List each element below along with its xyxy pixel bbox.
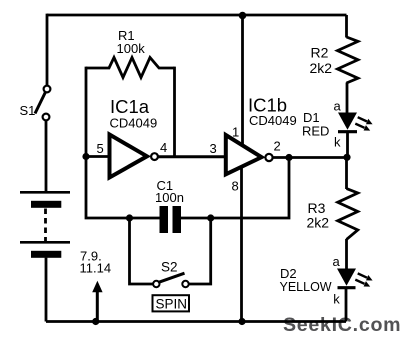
node top rail junction [239, 12, 247, 20]
battery [20, 192, 70, 257]
wire R3 to D2 [345, 239, 348, 269]
SPIN label box [153, 295, 190, 311]
wire D1 to node [346, 133, 349, 157]
svg-text:2k2: 2k2 [310, 60, 333, 76]
wire R1 left leg [85, 67, 88, 157]
wire bottom rail [46, 320, 346, 323]
inverter IC1b [226, 135, 273, 174]
node C1 right junction [207, 214, 214, 221]
svg-text:CD4049: CD4049 [110, 116, 158, 131]
svg-text:S2: S2 [161, 259, 178, 274]
svg-text:IC1a: IC1a [110, 96, 150, 117]
resistor R1 [86, 58, 175, 78]
resistor R3 [338, 189, 358, 240]
svg-text:D2: D2 [280, 266, 297, 281]
svg-text:5: 5 [97, 141, 104, 156]
node pin2 junction [285, 154, 292, 161]
wire S1 to battery [45, 120, 48, 191]
svg-text:100k: 100k [117, 41, 146, 56]
wire IC1b pin1 from top rail [241, 16, 244, 147]
wire S2 left branch [130, 218, 154, 284]
capacitor C1 [160, 206, 182, 233]
wire top rail [47, 14, 347, 17]
wire right column top [345, 15, 348, 38]
svg-text:CD4049: CD4049 [249, 113, 297, 128]
node pin5 junction [82, 153, 89, 160]
wire R1 right leg [173, 67, 176, 156]
svg-text:3: 3 [210, 141, 217, 156]
supply arrow [92, 281, 102, 322]
svg-text:11.14: 11.14 [80, 260, 112, 275]
wire node to R3 [345, 157, 348, 189]
svg-text:100n: 100n [155, 190, 184, 205]
wire feedback left side to C1 [86, 155, 160, 218]
wire S2 right branch [189, 218, 211, 284]
svg-text:R3: R3 [308, 200, 326, 216]
svg-text:R2: R2 [311, 45, 329, 61]
svg-text:4: 4 [160, 140, 167, 155]
svg-text:1: 1 [232, 125, 239, 140]
svg-text:SeekIC.com: SeekIC.com [283, 314, 401, 336]
svg-text:YELLOW: YELLOW [280, 280, 332, 294]
switch S1 [35, 86, 50, 121]
inverter IC1a [110, 135, 158, 178]
node bottom rail pin8 junction [238, 318, 245, 325]
switch S2 [153, 273, 189, 287]
wire IC1a output to IC1b input [158, 155, 227, 158]
svg-text:SPIN: SPIN [156, 297, 188, 312]
node C1 left junction [126, 214, 133, 221]
LED D1 [338, 113, 373, 132]
svg-text:a: a [333, 254, 341, 269]
node bottom arrow junction [92, 318, 99, 325]
svg-text:RED: RED [302, 124, 329, 139]
svg-text:k: k [333, 291, 340, 306]
LED D2 [337, 269, 373, 288]
svg-text:S1: S1 [20, 103, 36, 118]
wire battery to bottom rail [45, 258, 48, 322]
svg-text:2k2: 2k2 [307, 215, 330, 231]
wire feedback down from pin2 node [181, 158, 289, 219]
svg-text:2: 2 [274, 139, 281, 154]
svg-text:k: k [334, 135, 341, 150]
svg-text:8: 8 [232, 179, 239, 194]
wire pin5 input [85, 155, 110, 158]
node D1 cathode junction [343, 154, 350, 161]
svg-text:a: a [334, 99, 342, 114]
wire R2 to D1 [346, 83, 349, 114]
resistor R2 [338, 37, 359, 83]
wire left column top [46, 14, 49, 86]
wire IC1b output [273, 156, 347, 159]
wire IC1b pin8 to bottom rail [240, 166, 243, 322]
wire D2 to bottom rail [345, 289, 348, 322]
